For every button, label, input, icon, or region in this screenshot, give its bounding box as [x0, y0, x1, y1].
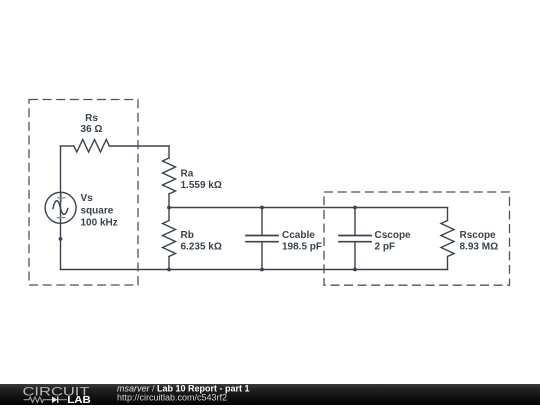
svg-text:http://circuitlab.com/c543rf2: http://circuitlab.com/c543rf2	[117, 393, 227, 403]
wire: Rscope top lead	[447, 208, 449, 221]
node Cscope bottom	[353, 268, 357, 272]
Vs plus sign	[57, 194, 66, 218]
svg-text:Cscope: Cscope	[375, 230, 412, 241]
footer bar	[0, 384, 540, 405]
node Ccable bottom	[260, 268, 264, 272]
wire: Ra top lead	[168, 146, 170, 158]
voltage source Vs	[45, 192, 76, 223]
wire: Ra bottom lead	[168, 194, 170, 208]
svg-text:Rs: Rs	[85, 113, 98, 124]
resistor Rb	[163, 221, 176, 257]
svg-text:1.559 kΩ: 1.559 kΩ	[181, 180, 222, 191]
svg-text:2 pF: 2 pF	[375, 242, 396, 253]
capacitor Ccable bottom lead	[261, 242, 263, 270]
wire: Rscope bottom lead	[447, 257, 449, 270]
svg-text:8.93 MΩ: 8.93 MΩ	[460, 242, 499, 253]
node Ra/Rb middle rail	[167, 206, 171, 210]
wire: Rb top lead	[168, 208, 170, 221]
svg-text:36 Ω: 36 Ω	[81, 124, 103, 135]
svg-text:square: square	[81, 205, 114, 216]
resistor Rs	[74, 140, 110, 153]
dashed box: source + Rs group	[29, 100, 138, 286]
CircuitLab logo diode	[52, 396, 57, 403]
CircuitLab logo resistor squiggle	[24, 397, 52, 402]
svg-text:Vs: Vs	[81, 193, 94, 204]
wire: middle rail	[169, 207, 448, 209]
node Ccable top	[260, 206, 264, 210]
capacitor Ccable plates	[246, 235, 278, 237]
svg-text:Rscope: Rscope	[460, 230, 497, 241]
resistor Ra	[163, 158, 176, 194]
junction node below Vs	[59, 237, 63, 241]
resistor Rscope	[441, 221, 454, 257]
svg-text:6.235 kΩ: 6.235 kΩ	[181, 242, 222, 253]
capacitor Cscope top lead	[354, 208, 356, 236]
Vs minus sign	[57, 217, 66, 219]
node Cscope top	[353, 206, 357, 210]
wire: top rail from Rs to Ra	[109, 145, 169, 147]
svg-text:Ra: Ra	[181, 169, 194, 180]
svg-text:Ccable: Ccable	[282, 230, 315, 241]
svg-text:198.5 pF: 198.5 pF	[282, 242, 322, 253]
capacitor Cscope plates	[339, 235, 371, 237]
capacitor Ccable top lead	[261, 208, 263, 236]
wire: left vertical from top rail through Vs down to bottom rail	[60, 146, 62, 270]
svg-text:100 kHz: 100 kHz	[81, 218, 118, 229]
svg-text:LAB: LAB	[67, 395, 91, 405]
capacitor Cscope bottom lead	[354, 242, 356, 270]
svg-text:Rb: Rb	[181, 230, 194, 241]
wire: bottom rail	[61, 269, 448, 271]
dashed box: scope group	[324, 192, 510, 285]
wire: Rb bottom lead	[168, 257, 170, 270]
node Rb bottom rail	[167, 268, 171, 272]
wire: top rail left segment to Rs	[61, 145, 74, 147]
